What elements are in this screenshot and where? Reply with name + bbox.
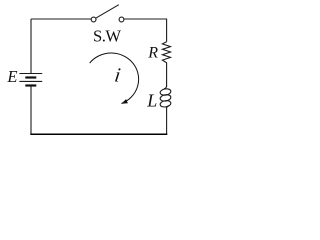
svg-text:R: R [147,45,158,62]
svg-text:i: i [113,65,122,87]
svg-text:L: L [146,91,157,111]
svg-text:S.W: S.W [93,27,121,46]
svg-text:E: E [6,67,17,86]
